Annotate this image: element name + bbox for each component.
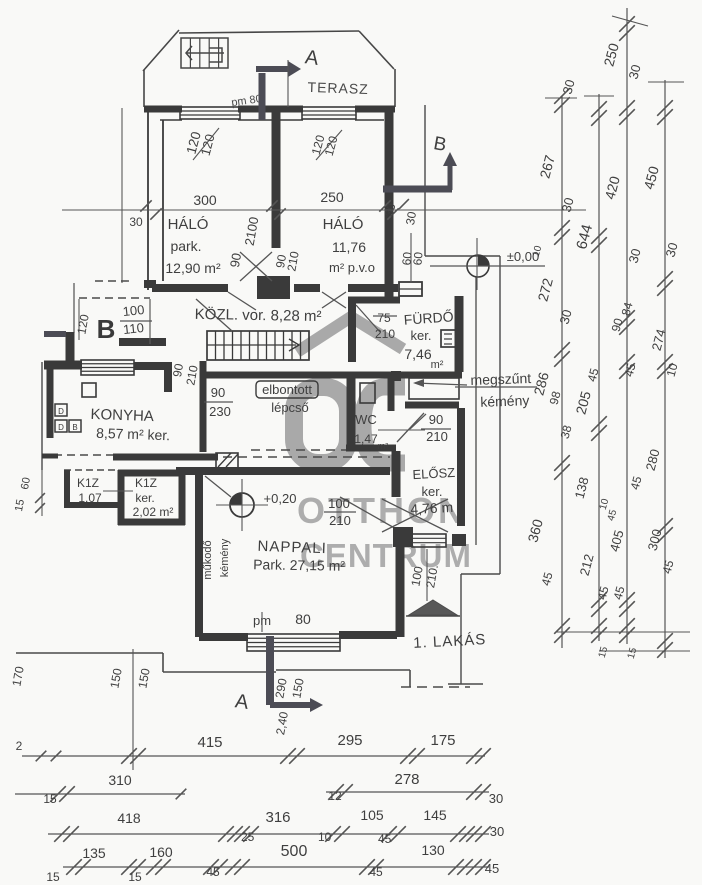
WC bottom wall — [346, 445, 396, 452]
bedroom1 left wall double line — [147, 107, 149, 290]
staircase in hall — [207, 331, 309, 360]
svg-text:45: 45 — [206, 865, 220, 879]
svg-text:HÁLÓ: HÁLÓ — [168, 216, 209, 233]
dashed lines above living room — [251, 449, 390, 451]
svg-text:45: 45 — [378, 832, 392, 846]
svg-text:WC: WC — [355, 412, 377, 427]
ELOSZ bottom wall right piece — [452, 534, 466, 546]
svg-text:415: 415 — [197, 734, 222, 751]
door swing living room right (100/210) — [340, 497, 398, 530]
svg-text:2: 2 — [16, 739, 23, 753]
svg-text:15: 15 — [128, 870, 142, 884]
svg-text:210: 210 — [426, 429, 448, 444]
dashed kitchen bottom — [54, 454, 113, 456]
svg-text:90: 90 — [227, 252, 244, 269]
svg-text:145: 145 — [423, 807, 447, 823]
bottom-left outline — [16, 652, 163, 654]
svg-text:KONYHA: KONYHA — [90, 406, 154, 425]
ELOSZ right wall — [457, 408, 465, 526]
svg-text:Park. 27,15 m²: Park. 27,15 m² — [253, 556, 345, 574]
svg-text:lépcső: lépcső — [271, 400, 309, 415]
chimney box 75 between bedroom2 and bathroom — [399, 282, 422, 296]
hall bottom wall — [203, 372, 404, 379]
svg-text:60: 60 — [410, 251, 425, 266]
boundary step left at y=574 — [461, 573, 500, 575]
terrace outline right vertical — [394, 69, 396, 107]
section B marker left — [44, 331, 66, 337]
dim 30 right boundary — [399, 199, 409, 209]
svg-text:B: B — [97, 314, 116, 344]
section B marker right — [383, 152, 457, 190]
bedroom2 bottom wall right part — [348, 284, 398, 292]
svg-text:12,90 m²: 12,90 m² — [165, 260, 221, 276]
hall bay thin vertical — [78, 299, 80, 340]
middle wall door jamb block — [257, 276, 290, 299]
WC left wall — [347, 378, 356, 450]
chimney hatched box top — [216, 453, 238, 468]
short bottom line — [448, 683, 483, 685]
svg-text:30: 30 — [489, 791, 503, 806]
kitchen top-left wall corner — [44, 361, 82, 370]
bottom chain row1 y755 — [22, 755, 485, 757]
svg-text:D: D — [58, 407, 64, 416]
svg-text:90: 90 — [429, 412, 443, 427]
entry door swing X — [382, 499, 448, 532]
svg-text:135: 135 — [82, 845, 106, 861]
svg-text:230: 230 — [209, 404, 231, 419]
dashed line hall bay top — [79, 297, 150, 299]
kitchen top wall step — [134, 362, 172, 370]
svg-text:500: 500 — [281, 843, 308, 860]
svg-text:műkodő: műkodő — [202, 540, 214, 579]
stair arrow — [207, 344, 296, 346]
svg-text:11,76: 11,76 — [332, 239, 366, 255]
svg-text:4,76 m: 4,76 m — [410, 499, 454, 517]
bathroom door swing — [356, 305, 380, 332]
window bedroom 2 — [302, 107, 356, 119]
svg-text:7,46: 7,46 — [404, 346, 431, 362]
svg-text:110: 110 — [122, 320, 144, 337]
top exterior wall of bedrooms — [144, 106, 182, 113]
wall kitchen/hall vertical — [200, 361, 207, 452]
stair symbol at terrace top — [181, 38, 228, 68]
middle wall between bedrooms — [272, 109, 281, 248]
dashed line left of bedroom1 bottom — [95, 280, 131, 282]
right outer boundary lower x=461 — [460, 574, 462, 684]
label +-0,00 — [467, 255, 489, 277]
svg-text:FÜRDŐ: FÜRDŐ — [403, 307, 454, 327]
entrance triangle marker — [409, 600, 457, 615]
svg-text:NAPPALI: NAPPALI — [257, 538, 327, 557]
svg-text:HÁLÓ: HÁLÓ — [323, 216, 364, 233]
watermark Otthon Centrum logo — [294, 317, 472, 574]
living room bottom wall right part — [339, 631, 397, 639]
kitchen cabinet boxes — [82, 383, 96, 397]
svg-text:K1Z: K1Z — [135, 476, 157, 490]
svg-text:45: 45 — [369, 865, 383, 879]
kitchen counter multi-line — [81, 360, 134, 375]
svg-text:15: 15 — [46, 870, 60, 884]
bedroom2 right wall — [385, 109, 394, 298]
dashed K1Z top — [64, 469, 118, 471]
svg-text:m²: m² — [378, 441, 389, 451]
WC right wall piece — [388, 378, 395, 411]
svg-text:m² p.v.o: m² p.v.o — [329, 260, 375, 275]
svg-text:ker.: ker. — [411, 328, 432, 343]
bathroom left wall — [348, 297, 356, 362]
svg-text:park.: park. — [170, 238, 201, 254]
kitchen left wall — [47, 368, 54, 438]
room K1Z ker 2,02 walls — [118, 470, 125, 525]
svg-text:30: 30 — [129, 215, 143, 229]
svg-text:KÖZL. vor. 8,28 m²: KÖZL. vor. 8,28 m² — [195, 305, 322, 325]
svg-text:316: 316 — [265, 809, 290, 826]
svg-text:80: 80 — [295, 611, 311, 627]
living room top wall — [176, 467, 390, 475]
svg-text:278: 278 — [394, 771, 419, 788]
entry door threshold — [412, 534, 446, 547]
svg-text:ker.: ker. — [135, 491, 154, 505]
WC door swing — [397, 413, 424, 442]
door swing living room top-left — [205, 476, 231, 497]
svg-text:100: 100 — [328, 496, 350, 511]
living room right wall lower — [396, 530, 405, 637]
living room right wall upper — [392, 451, 401, 497]
svg-text:75: 75 — [377, 311, 391, 325]
svg-text:90: 90 — [170, 362, 186, 378]
svg-text:60: 60 — [19, 476, 33, 490]
svg-text:30: 30 — [490, 824, 504, 839]
svg-text:15: 15 — [43, 792, 57, 806]
bedroom1 bottom wall — [152, 284, 228, 292]
bathroom small box (E) — [441, 330, 457, 347]
terrace outline left vertical — [143, 70, 145, 107]
boundary step to right — [425, 255, 500, 257]
window bedroom 1 — [180, 107, 240, 119]
door jamb square WC — [391, 371, 401, 381]
chain start bars — [545, 97, 577, 99]
svg-text:kémény: kémény — [219, 538, 231, 577]
svg-text:295: 295 — [337, 732, 362, 749]
svg-text:megszűnt: megszűnt — [470, 370, 531, 388]
svg-text:2,02 m²: 2,02 m² — [133, 505, 174, 519]
section A marker bottom — [270, 636, 323, 712]
svg-text:1,47: 1,47 — [354, 432, 378, 446]
outline under living room — [276, 669, 410, 671]
door swing bedroom2 bottom door — [322, 292, 346, 308]
svg-text:8,57 m² ker.: 8,57 m² ker. — [96, 425, 170, 444]
section A marker top — [256, 61, 301, 120]
left outer dim line kitchen lower — [41, 470, 43, 516]
living room left wall — [195, 471, 203, 637]
svg-text:15: 15 — [13, 498, 27, 512]
svg-text:K1Z: K1Z — [77, 476, 99, 490]
svg-text:90: 90 — [211, 385, 225, 400]
svg-text:10: 10 — [318, 830, 332, 844]
left outer line kitchen — [41, 362, 43, 470]
svg-text:25: 25 — [241, 830, 255, 844]
svg-text:30: 30 — [403, 210, 419, 226]
svg-text:TERASZ: TERASZ — [307, 79, 369, 97]
svg-text:210: 210 — [329, 513, 351, 528]
svg-text:elbontott: elbontott — [262, 382, 312, 397]
ELOSZ outer face line — [475, 277, 477, 545]
ELOSZ bottom wall left piece — [393, 527, 413, 547]
left boundary of hall bay — [73, 283, 75, 333]
right outer boundary upper — [424, 105, 426, 256]
living room bottom wall left part — [199, 633, 248, 641]
door swing bedroom1 bottom door — [228, 292, 256, 310]
bathroom right wall — [455, 296, 464, 372]
svg-text:B: B — [72, 423, 77, 432]
svg-text:300: 300 — [193, 192, 217, 208]
room K1Z 1,07 walls — [64, 470, 70, 507]
svg-text:ELŐSZ: ELŐSZ — [412, 465, 455, 482]
svg-text:160: 160 — [149, 844, 173, 860]
megszunt kemeny chimney box — [409, 378, 459, 399]
wall above WC door — [405, 402, 459, 409]
living room window pm80 — [247, 634, 340, 651]
elbontott lepcso box — [256, 381, 318, 398]
door swing bedroom1 (middle wall door) — [240, 252, 272, 281]
chain bottom cross ticks — [556, 631, 690, 633]
dim line y210 across bedrooms — [62, 209, 586, 211]
chain ticks — [554, 88, 570, 104]
svg-text:175: 175 — [430, 732, 455, 749]
WC sink box — [360, 383, 375, 403]
svg-text:ker.: ker. — [422, 484, 443, 499]
svg-text:45: 45 — [485, 861, 499, 876]
hall bay left wall piece — [66, 332, 75, 366]
bottom chain row2 y793 — [15, 793, 185, 795]
bathroom top wall — [348, 297, 400, 304]
svg-text:418: 418 — [117, 810, 141, 826]
stair up diagonal — [196, 299, 232, 331]
kitchen top wall (B-section bar) — [119, 338, 166, 346]
terrace top edge — [179, 31, 359, 33]
inner face top wall — [160, 119, 182, 121]
svg-text:12: 12 — [328, 789, 342, 803]
svg-text:100: 100 — [122, 302, 145, 319]
terrace outline top-left diagonal — [143, 30, 179, 71]
entry axis line — [426, 549, 428, 601]
bottom chain row4 y866 — [63, 866, 489, 868]
svg-text:210: 210 — [375, 327, 395, 341]
svg-text:310: 310 — [108, 772, 132, 788]
bedroom1 bottom-left corner block — [144, 280, 156, 288]
dashed boundary bottom right — [401, 686, 470, 688]
right outer boundary x=500 — [499, 256, 501, 574]
svg-text:m²: m² — [431, 359, 444, 371]
svg-text:105: 105 — [360, 807, 384, 823]
bedroom2 bottom wall left part — [294, 284, 320, 292]
svg-text:kémény: kémény — [480, 392, 530, 410]
svg-text:1,07: 1,07 — [78, 491, 102, 505]
svg-text:+0,20: +0,20 — [264, 491, 297, 506]
chimney circle (+0,20) — [230, 493, 254, 517]
svg-text:250: 250 — [320, 189, 344, 205]
svg-text:D: D — [58, 423, 64, 432]
bathroom bottom wall — [404, 372, 462, 379]
svg-text:130: 130 — [421, 842, 445, 858]
right dimension chain lines — [561, 96, 563, 648]
kitchen bottom wall — [113, 454, 218, 461]
left outer line of bedroom1 — [121, 108, 123, 283]
bottom chain row3 y833 — [48, 833, 489, 835]
terrace outline top-right diagonal — [359, 31, 394, 69]
